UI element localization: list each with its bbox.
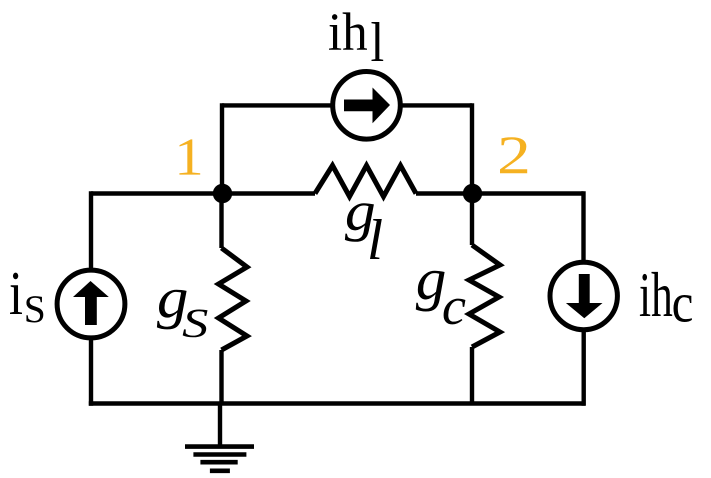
label gS (157, 290, 208, 338)
label node 1 (179, 139, 200, 174)
label gl (345, 203, 382, 259)
resistor gc (469, 194, 500, 404)
wire: top rail right segment (401, 103, 473, 107)
wire: bottom ground rail (89, 401, 585, 405)
wire: right branch vertical upper segment (581, 191, 585, 262)
ground (185, 404, 254, 471)
wire: top rail down to node 2 (470, 103, 474, 193)
label is (10, 273, 43, 323)
wire: left branch vertical upper segment (89, 191, 93, 270)
wire: node 1 up to top rail (220, 103, 224, 195)
wire: node 1 left to top-left corner of left branch (91, 191, 222, 195)
wire: right branch vertical lower segment (582, 331, 586, 406)
current source ihc (550, 262, 617, 329)
current source is (57, 270, 125, 338)
node 1 junction dot (213, 184, 232, 203)
label gc (416, 271, 466, 325)
current source ihl (333, 72, 401, 140)
resistor gS (219, 194, 248, 404)
label node 2 (500, 137, 527, 173)
wire: top rail left segment (222, 103, 333, 107)
resistor gl (222, 166, 472, 197)
node 2 junction dot (463, 184, 482, 203)
label ihc (640, 272, 692, 322)
wire: left branch vertical lower segment (89, 339, 93, 406)
label ihl (329, 12, 383, 61)
wire: node 2 right to top-right corner of right branch (472, 191, 584, 195)
